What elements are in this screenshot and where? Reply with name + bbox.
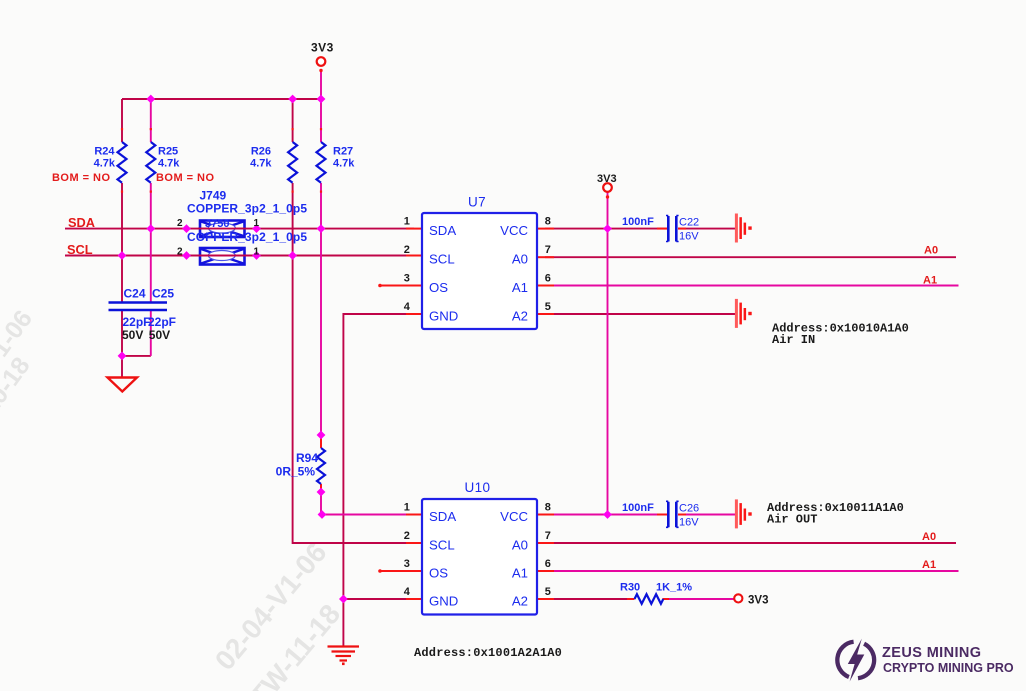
svg-text:C25: C25 (152, 287, 174, 301)
svg-text:J750: J750 (205, 218, 229, 230)
svg-text:4.7k: 4.7k (158, 158, 180, 170)
svg-text:CRYPTO MINING PRO: CRYPTO MINING PRO (883, 661, 1014, 675)
svg-text:GND: GND (429, 593, 458, 608)
svg-text:4: 4 (404, 586, 411, 598)
svg-text:SDA: SDA (68, 215, 95, 230)
svg-text:A1: A1 (923, 275, 937, 287)
svg-text:50V: 50V (122, 328, 143, 342)
svg-text:C26: C26 (679, 503, 699, 515)
svg-text:7: 7 (545, 530, 551, 542)
svg-text:OS: OS (429, 565, 448, 580)
svg-text:4.7k: 4.7k (250, 158, 272, 170)
svg-text:GND: GND (429, 309, 458, 324)
svg-text:R94: R94 (296, 451, 318, 465)
svg-text:50V: 50V (149, 328, 170, 342)
svg-text:VCC: VCC (500, 509, 528, 524)
svg-text:R25: R25 (158, 146, 178, 158)
svg-text:J749: J749 (200, 189, 227, 203)
svg-text:C24: C24 (124, 287, 146, 301)
svg-text:U10: U10 (465, 480, 491, 495)
svg-text:2: 2 (404, 530, 410, 542)
svg-text:U7: U7 (468, 195, 486, 210)
svg-text:4.7k: 4.7k (94, 158, 116, 170)
svg-text:16V: 16V (679, 517, 699, 529)
svg-text:R24: R24 (94, 146, 115, 158)
svg-text:22pF: 22pF (123, 315, 151, 329)
svg-text:4: 4 (404, 301, 411, 313)
svg-text:5: 5 (545, 301, 551, 313)
svg-text:A0: A0 (512, 252, 528, 267)
svg-text:4.7k: 4.7k (333, 158, 355, 170)
svg-text:1: 1 (254, 218, 260, 229)
svg-text:3V3: 3V3 (748, 595, 768, 607)
svg-text:A2: A2 (512, 593, 528, 608)
svg-text:A2: A2 (512, 309, 528, 324)
svg-text:VCC: VCC (500, 223, 528, 238)
svg-text:A1: A1 (512, 280, 528, 295)
svg-text:0R_5%: 0R_5% (276, 465, 316, 479)
svg-text:SCL: SCL (429, 252, 455, 267)
svg-text:A0: A0 (922, 531, 936, 543)
svg-text:22pF: 22pF (148, 315, 176, 329)
svg-text:A0: A0 (924, 245, 938, 257)
svg-text:21-10-18: 21-10-18 (0, 352, 36, 449)
svg-text:SCL: SCL (429, 537, 455, 552)
svg-text:100nF: 100nF (622, 216, 654, 228)
svg-text:100nF: 100nF (622, 502, 654, 514)
svg-text:1K_1%: 1K_1% (656, 582, 692, 594)
svg-text:1: 1 (404, 502, 410, 514)
svg-text:3: 3 (404, 273, 410, 285)
svg-text:7: 7 (545, 244, 551, 256)
svg-text:Air OUT: Air OUT (767, 513, 817, 527)
svg-text:8: 8 (545, 216, 551, 228)
svg-text:R26: R26 (251, 146, 271, 158)
svg-text:R27: R27 (333, 146, 353, 158)
svg-text:3: 3 (404, 558, 410, 570)
svg-text:C22: C22 (679, 217, 699, 229)
svg-text:A0: A0 (512, 537, 528, 552)
svg-text:SDA: SDA (429, 223, 456, 238)
svg-text:A1: A1 (512, 565, 528, 580)
svg-text:2: 2 (404, 244, 410, 256)
svg-text:Address:0x1001A2A1A0: Address:0x1001A2A1A0 (414, 646, 562, 660)
svg-text:2: 2 (177, 218, 183, 229)
svg-text:BOM = NO: BOM = NO (52, 172, 110, 184)
svg-text:SDA: SDA (429, 509, 456, 524)
svg-text:Air IN: Air IN (772, 333, 815, 347)
svg-text:COPPER_3p2_1_0p5: COPPER_3p2_1_0p5 (187, 230, 307, 244)
svg-text:COPPER_3p2_1_0p5: COPPER_3p2_1_0p5 (187, 202, 307, 216)
svg-text:1: 1 (404, 216, 410, 228)
svg-text:16V: 16V (679, 231, 699, 243)
svg-text:OS: OS (429, 280, 448, 295)
svg-text:6: 6 (545, 273, 551, 285)
svg-text:3V3: 3V3 (311, 41, 334, 55)
svg-text:BOM = NO: BOM = NO (156, 172, 214, 184)
svg-text:6: 6 (545, 558, 551, 570)
svg-text:3V3: 3V3 (597, 173, 617, 185)
svg-text:ZEUS MINING: ZEUS MINING (882, 645, 981, 661)
svg-text:1: 1 (254, 247, 260, 258)
svg-text:2: 2 (177, 247, 183, 258)
svg-text:R30: R30 (620, 582, 640, 594)
svg-text:8: 8 (545, 502, 551, 514)
svg-text:SCL: SCL (67, 242, 93, 257)
svg-text:5: 5 (545, 586, 551, 598)
svg-text:A1: A1 (922, 559, 936, 571)
